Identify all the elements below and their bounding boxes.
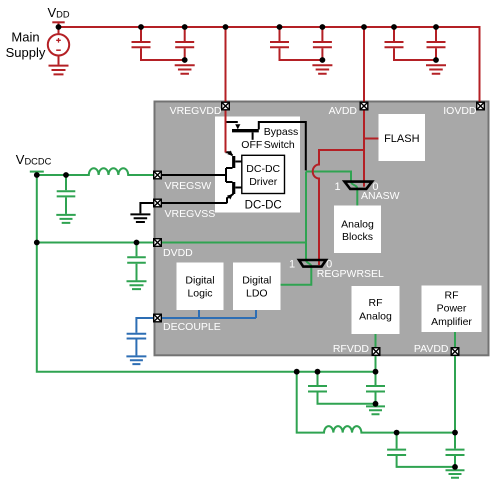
svg-text:Main: Main xyxy=(11,30,39,45)
svg-text:ANASW: ANASW xyxy=(361,190,400,202)
svg-text:Digital: Digital xyxy=(185,275,214,287)
svg-text:LDO: LDO xyxy=(246,288,268,300)
svg-text:PAVDD: PAVDD xyxy=(414,343,449,355)
svg-text:VREGVSS: VREGVSS xyxy=(165,208,216,220)
svg-text:Analog: Analog xyxy=(359,311,392,323)
svg-text:1: 1 xyxy=(335,181,341,193)
svg-text:0: 0 xyxy=(372,181,378,193)
svg-text:1: 1 xyxy=(289,259,295,271)
svg-text:Supply: Supply xyxy=(6,45,46,60)
svg-text:RF: RF xyxy=(369,297,383,309)
svg-text:OFF: OFF xyxy=(241,139,262,151)
svg-text:Power: Power xyxy=(437,303,467,315)
svg-text:DC-DC: DC-DC xyxy=(245,199,282,211)
svg-text:Analog: Analog xyxy=(341,218,374,230)
svg-text:Logic: Logic xyxy=(187,288,212,300)
svg-text:VREGVDD: VREGVDD xyxy=(170,105,222,117)
svg-text:Driver: Driver xyxy=(249,176,278,188)
svg-text:Blocks: Blocks xyxy=(342,231,373,243)
svg-text:DVDD: DVDD xyxy=(163,247,193,259)
svg-text:DC-DC: DC-DC xyxy=(246,163,280,175)
svg-text:Switch: Switch xyxy=(264,139,295,151)
svg-text:Bypass: Bypass xyxy=(264,126,298,138)
svg-text:FLASH: FLASH xyxy=(384,133,420,145)
svg-text:DECOUPLE: DECOUPLE xyxy=(163,321,221,333)
svg-text:RFVDD: RFVDD xyxy=(333,343,370,355)
svg-text:VREGSW: VREGSW xyxy=(165,180,212,192)
svg-text:AVDD: AVDD xyxy=(329,105,358,117)
svg-text:Digital: Digital xyxy=(242,275,271,287)
svg-text:0: 0 xyxy=(326,259,332,271)
svg-text:RF: RF xyxy=(445,289,459,301)
svg-text:IOVDD: IOVDD xyxy=(443,105,477,117)
svg-text:Amplifier: Amplifier xyxy=(431,316,472,328)
